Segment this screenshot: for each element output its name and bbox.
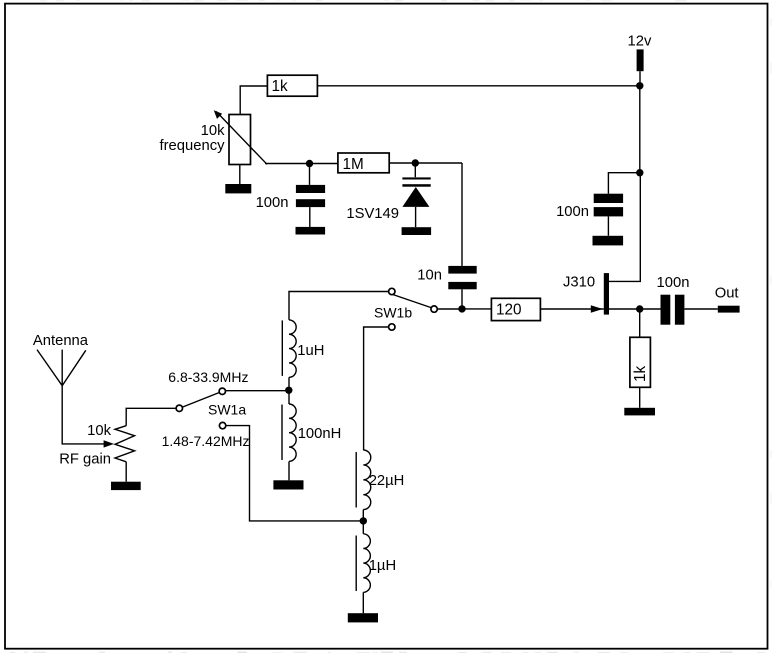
wire node B down to varactor (414, 163, 416, 177)
wire node G to L2 (288, 391, 290, 404)
wire SW1b throw to node C (438, 308, 462, 310)
svg-text:10k: 10k (87, 423, 111, 439)
svg-text:1.48-7.42MHz: 1.48-7.42MHz (162, 433, 250, 449)
wire C2 down to main row node C (461, 289, 463, 309)
scan noise bottom edge (10, 652, 765, 653)
wire node C to 120 (462, 308, 491, 310)
wire source to node F (609, 308, 640, 310)
gate arrow (591, 305, 603, 312)
ground (varactor) (402, 227, 432, 235)
capacitor C3 100n plates (594, 194, 623, 217)
switch SW1a throw 2 contact (219, 422, 225, 428)
core line L3 (355, 452, 357, 508)
inductor L3 22uH (363, 450, 370, 510)
node G junction (285, 387, 292, 394)
ground (R4) (624, 408, 655, 416)
svg-text:SW1b: SW1b (374, 305, 412, 321)
wire supply rail from 1k to 12v column (317, 85, 639, 87)
node A junction (306, 160, 313, 167)
resistor R1 1k (top) (267, 75, 317, 96)
svg-text:100n: 100n (556, 204, 589, 220)
ground (RF gain pot) (111, 482, 141, 490)
core line L2 (281, 405, 283, 461)
capacitor C4 100n plates (series) (661, 295, 685, 325)
switch SW1b lower contact (389, 324, 395, 330)
svg-text:120: 120 (496, 302, 522, 319)
wire node F down to R4 (639, 309, 641, 337)
node C junction (458, 305, 465, 312)
svg-text:100n: 100n (657, 275, 690, 291)
ground (C1) (296, 227, 326, 235)
node D junction (12v rail) (636, 82, 643, 89)
svg-text:10k: 10k (201, 123, 225, 139)
svg-text:22µH: 22µH (369, 473, 405, 489)
wire node E down to drain corner (609, 173, 640, 282)
wire R4 to ground (639, 387, 641, 408)
wire L4 to ground (362, 592, 364, 613)
svg-text:1SV149: 1SV149 (346, 206, 399, 222)
switch SW1a common contact (176, 405, 182, 411)
wire pot top to SW1a common (126, 408, 175, 425)
svg-text:12v: 12v (628, 34, 652, 50)
svg-text:SW1a: SW1a (208, 402, 246, 418)
transistor Q1 J310 channel bar (604, 273, 609, 315)
inductor L1 1uH (289, 320, 296, 377)
wire tank top from coil to SW1b (289, 292, 388, 320)
scan noise right edge (770, 18, 772, 588)
wire varactor to ground (415, 207, 417, 227)
node B junction (varactor top) (412, 159, 419, 166)
inductor L4 1uH (bottom) (363, 534, 370, 593)
wire L3 to node H (362, 510, 364, 534)
node E junction (636, 169, 643, 176)
potentiometer R6 10k RF gain zigzag (115, 426, 135, 462)
svg-text:1k: 1k (272, 78, 289, 95)
wire node A down to C1 (309, 164, 311, 185)
label 10k frequency (160, 123, 226, 154)
varactor D1 1SV149 (402, 177, 430, 207)
wire node A to 1M (310, 163, 339, 165)
svg-text:100n: 100n (256, 195, 289, 211)
svg-text:1M: 1M (343, 156, 364, 173)
wire 1M to node B and on to C2 drop (389, 162, 462, 164)
capacitor C1 100n plates (296, 185, 325, 207)
wire SW1b lower to L3 (364, 327, 389, 450)
svg-text:Antenna: Antenna (33, 333, 89, 349)
svg-text:frequency: frequency (160, 138, 226, 154)
svg-text:RF gain: RF gain (59, 451, 111, 467)
capacitor C2 10n plates (448, 266, 476, 289)
wire wiper to node A (265, 163, 310, 165)
scan noise top edge (40, 0, 687, 2)
ground (C3) (593, 236, 624, 246)
antenna symbol (37, 350, 86, 386)
node H junction (360, 517, 367, 524)
core line L4 (355, 536, 357, 592)
switch SW1a lever (182, 393, 219, 408)
wire C3 to ground (607, 216, 609, 235)
svg-text:1k: 1k (632, 365, 649, 382)
svg-text:Out: Out (715, 286, 739, 302)
core line L1 (281, 320, 283, 376)
wire pot bottom to ground (125, 462, 127, 482)
switch SW1b lever (393, 295, 431, 308)
switch SW1b throw contact (431, 306, 437, 312)
svg-text:1µH: 1µH (369, 558, 396, 574)
wire C1 to ground (309, 207, 311, 227)
wire pot bottom to ground (239, 165, 241, 185)
wire L1 bottom to node G (288, 377, 290, 390)
switch SW1a throw 1 contact (219, 388, 225, 394)
svg-text:1uH: 1uH (297, 343, 324, 359)
wire throw1 to node G (226, 390, 289, 392)
svg-text:6.8-33.9MHz: 6.8-33.9MHz (168, 369, 248, 385)
ground (L4) (348, 613, 378, 622)
svg-text:100nH: 100nH (298, 426, 342, 442)
wire 1k left to pot top (240, 86, 267, 115)
wire C4 to Out (684, 308, 717, 310)
svg-text:10n: 10n (417, 268, 442, 284)
wire node F to C4 (640, 308, 661, 310)
svg-text:J310: J310 (563, 275, 595, 291)
terminal 12v supply bar (637, 49, 644, 71)
ground (L2) (273, 480, 303, 489)
node F junction (636, 305, 643, 312)
wire node E to C3 (608, 173, 639, 194)
switch SW1b pole contact (389, 288, 395, 294)
resistor R3 1M (338, 153, 389, 173)
wire 12v to rail (639, 71, 641, 86)
resistor R5 120 (491, 298, 540, 320)
inductor L2 100nH (289, 404, 296, 461)
wire gate from 120 to Q1 (540, 308, 603, 310)
terminal Out bar (718, 306, 740, 313)
ground (pot) (225, 184, 251, 193)
potentiometer wiper arrow (214, 110, 267, 164)
resistor R4 1k (source) (630, 337, 651, 387)
potentiometer R2 10k frequency body (229, 115, 251, 165)
wire rail down to node E (639, 86, 641, 173)
wire L2 to ground (288, 461, 290, 480)
wire antenna down and arrow to pot (62, 386, 114, 448)
wire node B right and down to C2 10n (461, 163, 463, 266)
wire throw2 down and right to node H (226, 426, 363, 521)
